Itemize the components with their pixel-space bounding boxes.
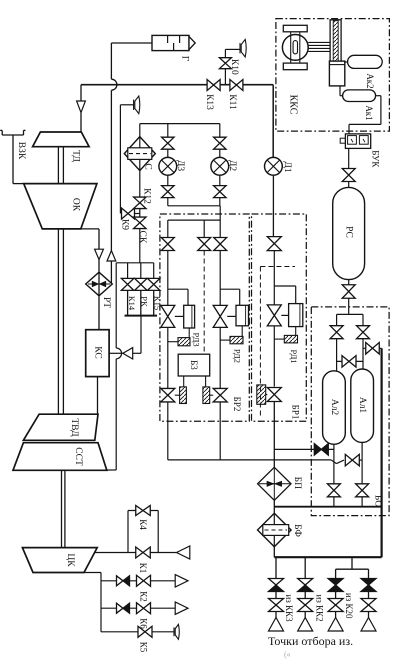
svg-text:БФ: БФ [292, 524, 302, 537]
svg-text:РД1: РД1 [289, 350, 299, 364]
svg-text:К15: К15 [152, 296, 162, 310]
svg-text:К4: К4 [138, 519, 148, 530]
svg-text:С: С [143, 163, 153, 169]
svg-text:БР1: БР1 [291, 405, 301, 420]
svg-text:БО: БО [373, 495, 383, 507]
svg-text:К2: К2 [139, 591, 149, 602]
svg-text:СК: СК [137, 231, 147, 244]
svg-text:Г: Г [180, 56, 190, 62]
svg-text:из КК3: из КК3 [284, 594, 294, 622]
svg-text:БУК: БУК [370, 150, 380, 168]
svg-text:ТВД: ТВД [69, 418, 79, 437]
svg-text:Д3: Д3 [175, 160, 185, 171]
svg-text:Ак2: Ак2 [365, 73, 375, 88]
svg-text:из К20: из К20 [344, 593, 354, 619]
svg-text:ВЗК: ВЗК [16, 142, 26, 160]
svg-text:(«: (« [284, 650, 291, 659]
svg-text:К5: К5 [139, 642, 149, 653]
svg-text:Д2: Д2 [227, 160, 237, 171]
svg-text:К1: К1 [138, 563, 148, 574]
svg-text:РД3: РД3 [192, 333, 202, 347]
svg-text:Ак1: Ак1 [364, 105, 374, 120]
svg-text:К9: К9 [120, 219, 130, 230]
svg-text:РТ: РТ [101, 297, 111, 308]
svg-text:ССТ: ССТ [73, 447, 83, 466]
svg-text:ОК: ОК [71, 198, 81, 212]
svg-text:Ал1: Ал1 [357, 397, 367, 414]
svg-text:Б3: Б3 [189, 360, 199, 370]
svg-text:РД2: РД2 [232, 349, 242, 363]
svg-text:ТД: ТД [71, 150, 81, 162]
svg-text:РК: РК [140, 296, 150, 307]
svg-text:из КК2: из КК2 [314, 594, 324, 621]
svg-text:БП: БП [292, 477, 302, 489]
svg-text:КС: КС [92, 346, 102, 358]
svg-text:Д1: Д1 [282, 161, 292, 172]
svg-text:РС: РС [344, 226, 354, 238]
svg-text:БР2: БР2 [232, 397, 242, 412]
svg-text:К10: К10 [229, 59, 239, 75]
svg-text:ККС: ККС [288, 95, 299, 115]
svg-text:Точки отбора из.: Точки отбора из. [268, 634, 353, 648]
svg-text:К14: К14 [127, 296, 137, 311]
svg-text:К13: К13 [204, 94, 214, 110]
svg-text:К12: К12 [142, 188, 152, 204]
svg-text:Ал2: Ал2 [329, 399, 339, 416]
svg-text:ЦК: ЦК [65, 553, 75, 567]
svg-text:К11: К11 [227, 94, 237, 110]
